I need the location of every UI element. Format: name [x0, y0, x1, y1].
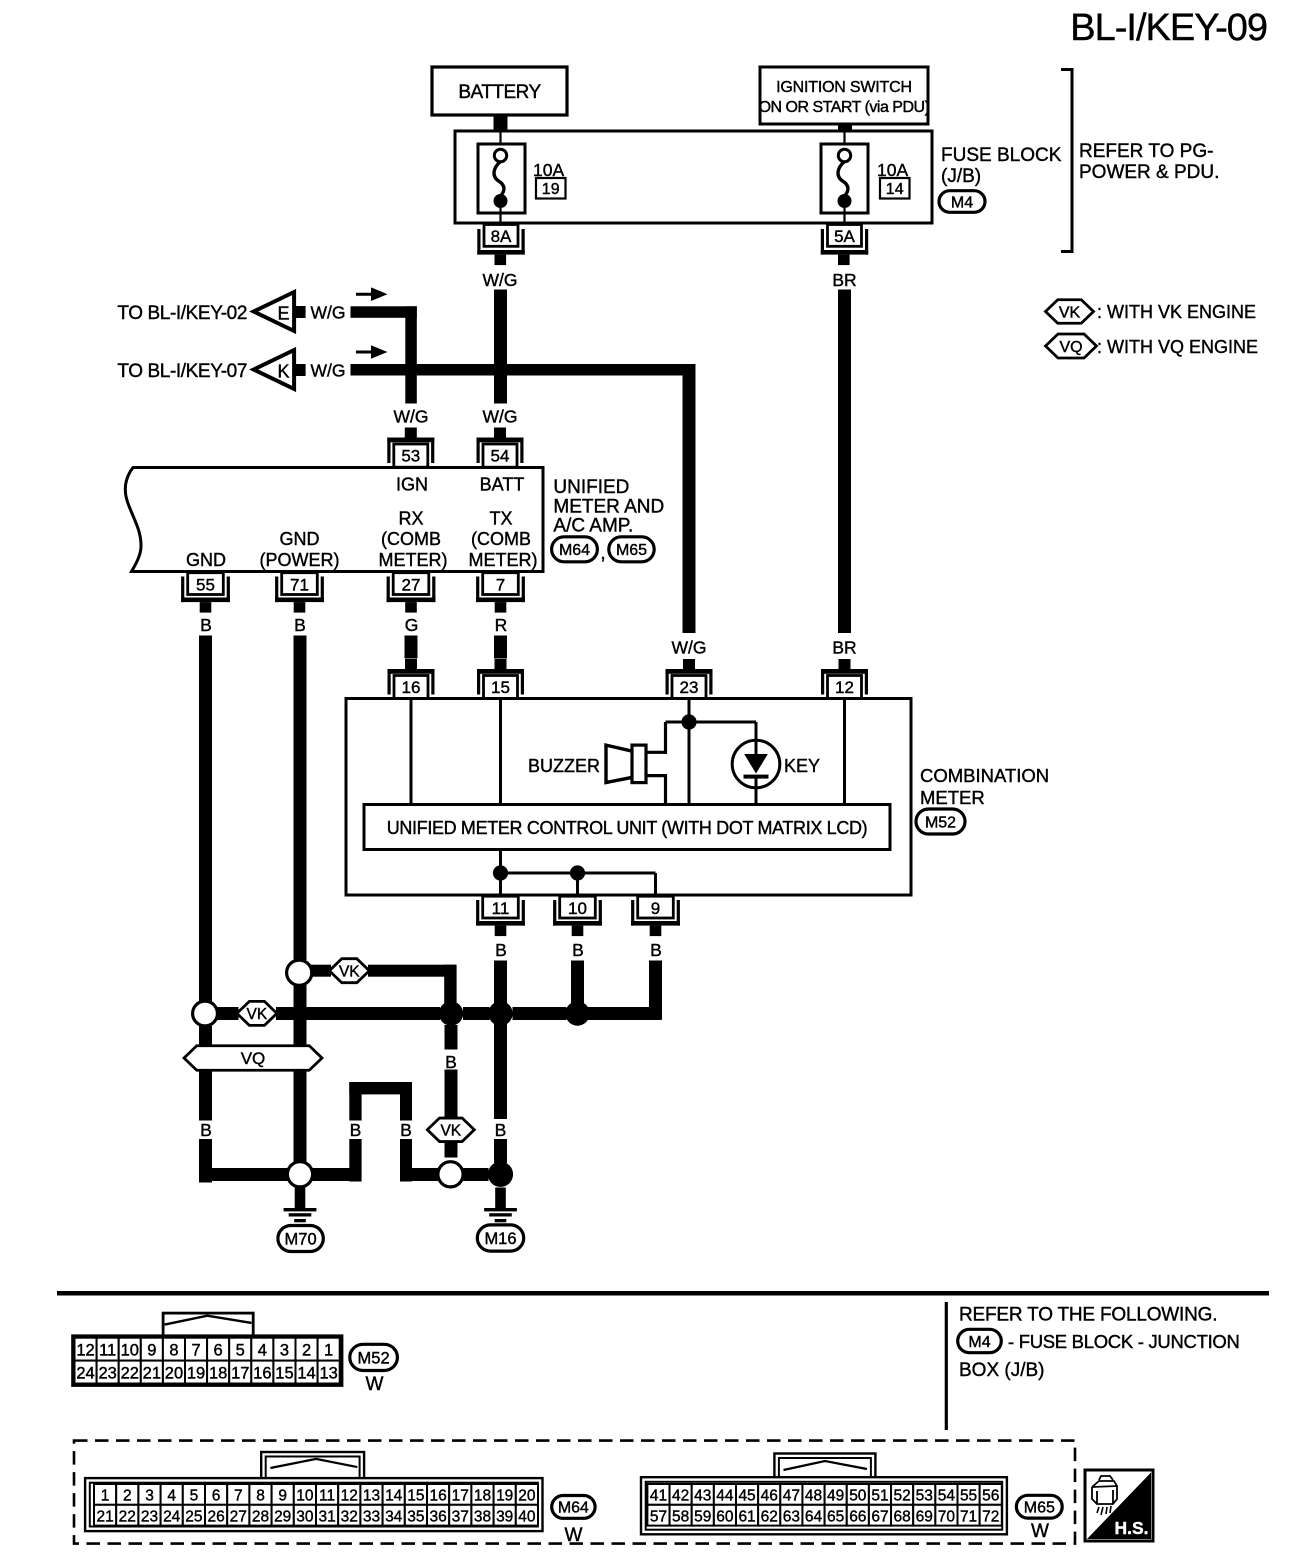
svg-text:UNIFIED METER CONTROL UNIT (WI: UNIFIED METER CONTROL UNIT (WITH DOT MAT…	[387, 818, 868, 838]
svg-text:ON OR START (via PDU): ON OR START (via PDU)	[759, 99, 930, 116]
connector pin 27	[387, 573, 436, 613]
svg-text:M65: M65	[616, 542, 647, 559]
svg-text:60: 60	[716, 1508, 734, 1525]
svg-text:METER): METER)	[469, 550, 538, 570]
svg-text:B: B	[200, 615, 212, 635]
svg-text:BOX (J/B): BOX (J/B)	[959, 1360, 1045, 1381]
fuse F14 number 14	[880, 178, 910, 199]
connector pin 15	[477, 659, 524, 699]
fuse F19 value 10A	[533, 160, 564, 180]
connector pin 5A	[821, 225, 868, 266]
svg-text:33: 33	[363, 1508, 380, 1525]
label KEY	[784, 756, 820, 776]
svg-text:BATT: BATT	[480, 474, 525, 494]
svg-text:38: 38	[474, 1508, 491, 1525]
svg-text:B: B	[350, 1120, 362, 1140]
junction node ground bus 1	[439, 1001, 463, 1025]
label BR ignition feed	[832, 270, 856, 290]
wire battery to fuse block	[494, 115, 508, 132]
svg-text:42: 42	[672, 1488, 689, 1505]
wire B pin 55 down	[199, 636, 289, 1183]
junction node pin23 branch	[681, 714, 696, 729]
label B row 11	[495, 1120, 507, 1140]
svg-text:72: 72	[982, 1508, 999, 1525]
pin label IGN	[396, 474, 428, 494]
svg-text:VQ: VQ	[241, 1049, 266, 1068]
svg-text:4: 4	[167, 1488, 176, 1505]
option tag VK lower	[427, 1118, 474, 1142]
svg-text:- FUSE BLOCK - JUNCTION: - FUSE BLOCK - JUNCTION	[1008, 1331, 1240, 1352]
svg-text:49: 49	[827, 1488, 844, 1505]
svg-text:BR: BR	[832, 270, 856, 290]
svg-text:19: 19	[187, 1365, 205, 1383]
connector ref M4	[939, 191, 985, 213]
svg-text:COMBINATION: COMBINATION	[920, 765, 1049, 786]
svg-text:3: 3	[145, 1488, 154, 1505]
connector ref M52	[916, 809, 965, 834]
svg-text:W: W	[366, 1374, 384, 1395]
svg-text:24: 24	[163, 1508, 181, 1525]
svg-text:1: 1	[324, 1342, 333, 1360]
svg-text:15: 15	[491, 678, 510, 697]
svg-text:15: 15	[275, 1365, 293, 1383]
svg-text:W: W	[1031, 1521, 1049, 1542]
pin label RX (COMB METER)	[379, 509, 448, 570]
svg-text:2: 2	[123, 1488, 132, 1505]
svg-text:K: K	[277, 362, 289, 382]
svg-text:12: 12	[76, 1342, 94, 1360]
svg-text:BL-I/KEY-09: BL-I/KEY-09	[1070, 7, 1267, 49]
svg-text:B: B	[295, 1120, 307, 1140]
svg-text:IGNITION SWITCH: IGNITION SWITCH	[776, 79, 912, 96]
svg-text:METER AND: METER AND	[553, 496, 664, 517]
svg-text:65: 65	[827, 1508, 844, 1525]
svg-text:26: 26	[207, 1508, 224, 1525]
junction node ground bus 2	[488, 1001, 512, 1025]
svg-text:(COMB: (COMB	[471, 529, 531, 549]
wire M16 link	[463, 1168, 489, 1181]
svg-text:27: 27	[230, 1508, 247, 1525]
wire umcu to pin 11	[499, 850, 502, 895]
svg-text:BR: BR	[832, 638, 856, 658]
LED key illumination	[732, 740, 780, 788]
svg-text:68: 68	[894, 1508, 911, 1525]
fuse F19 10A	[478, 131, 525, 225]
svg-text:69: 69	[916, 1508, 933, 1525]
svg-text:30: 30	[296, 1508, 314, 1525]
svg-text:M4: M4	[968, 1334, 990, 1351]
fuse block M4 box	[455, 131, 932, 223]
svg-text:44: 44	[716, 1488, 734, 1505]
svg-text:M70: M70	[285, 1230, 317, 1248]
svg-text:14: 14	[297, 1365, 315, 1383]
fuse F19 number 19	[536, 178, 566, 199]
wire G pin27 to pin16	[405, 636, 418, 659]
svg-text:64: 64	[805, 1508, 823, 1525]
svg-text:37: 37	[452, 1508, 469, 1525]
svg-text:B: B	[495, 940, 507, 960]
svg-text:KEY: KEY	[784, 756, 820, 776]
svg-text:(J/B): (J/B)	[941, 166, 981, 187]
direction arrow E row	[356, 287, 388, 301]
svg-text:39: 39	[496, 1508, 513, 1525]
svg-text:24: 24	[76, 1365, 94, 1383]
wire B pin 9 down	[584, 961, 663, 1021]
wire pin23 internal	[688, 700, 691, 805]
junction node pin11	[493, 865, 508, 880]
svg-text:67: 67	[871, 1508, 888, 1525]
svg-text:7: 7	[191, 1342, 200, 1360]
junction node ground bus 3	[565, 1001, 589, 1025]
svg-text:12: 12	[835, 678, 854, 697]
svg-text:(COMB: (COMB	[381, 529, 441, 549]
svg-text:VK: VK	[1059, 304, 1081, 321]
splice circle on wire 71 VK	[287, 960, 312, 985]
svg-text:31: 31	[318, 1508, 335, 1525]
H.S. logo box	[1085, 1470, 1153, 1541]
svg-text:TO BL-I/KEY-02: TO BL-I/KEY-02	[117, 303, 247, 324]
svg-text:M64: M64	[559, 542, 590, 559]
svg-text:IGN: IGN	[396, 474, 428, 494]
ground M70	[278, 1188, 323, 1252]
svg-text:52: 52	[894, 1488, 911, 1505]
connector face M64 color W	[565, 1525, 583, 1546]
fuse F14 value 10A	[877, 160, 908, 180]
separator line	[57, 1291, 1269, 1296]
svg-text:57: 57	[650, 1508, 667, 1525]
connector face M52 color W	[366, 1374, 384, 1395]
label UNIFIED METER AND A/C AMP.	[553, 477, 664, 536]
wire pin15 internal	[499, 700, 502, 805]
connector pin 7	[476, 573, 525, 613]
ignition switch	[759, 67, 930, 124]
splice circle on wire 55 VK	[193, 1001, 218, 1026]
svg-text:40: 40	[518, 1508, 536, 1525]
splice VK tag upper	[329, 959, 369, 983]
svg-text:16: 16	[253, 1365, 271, 1383]
svg-text:58: 58	[672, 1508, 689, 1525]
svg-text:23: 23	[98, 1365, 116, 1383]
svg-text:19: 19	[542, 181, 560, 198]
splice circle VK node	[438, 1162, 463, 1187]
connector pin 11	[476, 896, 525, 936]
wire ignition switch to fuse block	[838, 124, 852, 132]
svg-text:16: 16	[429, 1488, 446, 1505]
buzzer	[606, 745, 646, 783]
label W/G above pin 53	[394, 407, 429, 427]
dashed option box	[74, 1441, 1075, 1544]
fuse F14 10A	[821, 131, 868, 225]
legend symbol VQ	[1046, 334, 1097, 358]
pin label GND (POWER)	[260, 529, 340, 570]
connector face M64 tab	[261, 1452, 364, 1479]
svg-text:M65: M65	[1024, 1499, 1055, 1516]
svg-text:12: 12	[341, 1488, 358, 1505]
svg-text:A/C AMP.: A/C AMP.	[553, 515, 633, 536]
svg-text:23: 23	[141, 1508, 158, 1525]
label B row U-right	[400, 1120, 412, 1140]
connector pin 8A	[477, 225, 524, 266]
connector face M64	[85, 1478, 542, 1531]
svg-text:GND: GND	[186, 550, 226, 570]
svg-text:B: B	[294, 615, 306, 635]
svg-text:22: 22	[121, 1365, 139, 1383]
bracket refer note	[1061, 68, 1072, 253]
svg-text:71: 71	[960, 1508, 977, 1525]
wire BR vertical to pin 12	[838, 290, 851, 634]
svg-text:M4: M4	[951, 194, 973, 211]
svg-text:17: 17	[231, 1365, 249, 1383]
svg-text:53: 53	[401, 447, 420, 466]
label B row left	[200, 1120, 212, 1140]
wire ground bus	[217, 1007, 567, 1020]
label FUSE BLOCK (J/B)	[941, 145, 1062, 187]
label G wire 27	[405, 615, 419, 635]
connector pin 54	[477, 428, 524, 468]
wire B pin 71 down	[294, 636, 307, 1163]
svg-text:18: 18	[474, 1488, 491, 1505]
svg-text:M16: M16	[484, 1230, 516, 1248]
svg-text:B: B	[650, 940, 662, 960]
legend symbol VK	[1046, 300, 1094, 324]
svg-text:11: 11	[492, 899, 510, 918]
svg-text:27: 27	[402, 576, 421, 595]
svg-text:: WITH VQ ENGINE: : WITH VQ ENGINE	[1097, 337, 1258, 357]
svg-text:G: G	[405, 615, 419, 635]
svg-text:H.S.: H.S.	[1114, 1518, 1148, 1538]
svg-text:5A: 5A	[834, 227, 855, 246]
svg-text:6: 6	[214, 1342, 223, 1360]
pin label TX (COMB METER)	[469, 509, 538, 570]
svg-text:10: 10	[296, 1488, 314, 1505]
junction node pin10	[570, 865, 585, 880]
svg-text:TX: TX	[489, 509, 512, 529]
svg-text:10: 10	[568, 899, 587, 918]
label B wire 11	[495, 940, 507, 960]
connector ref M4 note	[958, 1329, 1002, 1352]
connector face M52 tab	[163, 1313, 253, 1337]
label B wire 71	[294, 615, 306, 635]
svg-text:FUSE BLOCK: FUSE BLOCK	[941, 145, 1062, 166]
svg-text:W/G: W/G	[311, 303, 346, 323]
svg-text:46: 46	[761, 1488, 778, 1505]
svg-text:7: 7	[234, 1488, 243, 1505]
svg-text:51: 51	[871, 1488, 888, 1505]
svg-text:VQ: VQ	[1059, 339, 1082, 356]
wire M70 link	[313, 1168, 358, 1181]
wire VK branch down	[445, 1025, 458, 1158]
off-page arrow E to BL-I/KEY-02	[117, 292, 305, 331]
svg-text:50: 50	[849, 1488, 867, 1505]
svg-text:14: 14	[886, 181, 904, 198]
wire split to pins 10 9	[501, 873, 656, 894]
svg-text:59: 59	[694, 1508, 711, 1525]
svg-text:E: E	[277, 304, 289, 324]
svg-text:M52: M52	[358, 1349, 390, 1367]
svg-text:18: 18	[209, 1365, 227, 1383]
note REFER TO PG-POWER & PDU.	[1079, 141, 1219, 183]
svg-text:VK: VK	[247, 1006, 268, 1023]
svg-text:6: 6	[212, 1488, 221, 1505]
note FUSE BLOCK JUNCTION	[959, 1331, 1240, 1381]
svg-text:71: 71	[290, 576, 309, 595]
svg-text:VK: VK	[339, 963, 360, 980]
wire R pin7 to pin15	[494, 636, 507, 659]
svg-text:TO BL-I/KEY-07: TO BL-I/KEY-07	[117, 361, 247, 382]
svg-text:W/G: W/G	[483, 270, 518, 290]
svg-text:43: 43	[694, 1488, 711, 1505]
svg-text:(POWER): (POWER)	[260, 550, 340, 570]
svg-text:8A: 8A	[491, 227, 512, 246]
svg-text:53: 53	[916, 1488, 933, 1505]
svg-text:W: W	[565, 1525, 583, 1546]
svg-text:7: 7	[496, 576, 505, 595]
wire W/G vertical to pin 54	[494, 290, 507, 404]
wire inverted-U jog	[349, 1082, 438, 1182]
label B wire 9	[650, 940, 662, 960]
svg-text:20: 20	[518, 1488, 536, 1505]
svg-text:UNIFIED: UNIFIED	[553, 477, 629, 498]
label COMBINATION METER	[920, 765, 1049, 808]
svg-text:20: 20	[165, 1365, 183, 1383]
svg-text:W/G: W/G	[311, 361, 346, 381]
svg-text:R: R	[495, 615, 508, 635]
svg-text:,: ,	[600, 543, 605, 564]
svg-text:9: 9	[278, 1488, 287, 1505]
connector ref M64 M65	[552, 537, 655, 564]
junction node M16	[488, 1162, 513, 1187]
svg-text:5: 5	[236, 1342, 245, 1360]
svg-text:22: 22	[119, 1508, 136, 1525]
label BUZZER	[528, 756, 600, 776]
svg-text:4: 4	[258, 1342, 267, 1360]
svg-text:32: 32	[341, 1508, 358, 1525]
svg-text:48: 48	[805, 1488, 822, 1505]
svg-text:2: 2	[302, 1342, 311, 1360]
connector pin 53	[387, 428, 434, 468]
splice circle M70 node	[287, 1162, 312, 1187]
svg-text:34: 34	[385, 1508, 403, 1525]
unified meter and A/C amp box U1	[125, 468, 543, 572]
title BL-I/KEY-09	[1070, 7, 1267, 49]
wire W/G from K to pin 23	[351, 364, 696, 633]
off-page arrow K to BL-I/KEY-07	[117, 350, 305, 389]
svg-text:11: 11	[319, 1488, 335, 1505]
wire VK branch upper	[311, 965, 457, 1014]
svg-text:14: 14	[385, 1488, 403, 1505]
svg-text:B: B	[200, 1120, 212, 1140]
svg-text:47: 47	[783, 1488, 800, 1505]
svg-text:56: 56	[982, 1488, 999, 1505]
svg-text:M64: M64	[558, 1500, 589, 1517]
svg-text:B: B	[400, 1120, 412, 1140]
connector face M65	[641, 1477, 1007, 1534]
svg-text:METER: METER	[920, 787, 985, 808]
svg-text:8: 8	[169, 1342, 178, 1360]
svg-text:8: 8	[256, 1488, 265, 1505]
svg-text:B: B	[445, 1052, 457, 1072]
svg-text:W/G: W/G	[672, 638, 707, 658]
svg-text:11: 11	[99, 1342, 116, 1360]
svg-text:W/G: W/G	[394, 407, 429, 427]
svg-text:63: 63	[783, 1508, 800, 1525]
svg-text:45: 45	[738, 1488, 755, 1505]
label B wire VK branch	[445, 1052, 457, 1072]
svg-text:70: 70	[938, 1508, 956, 1525]
svg-text:41: 41	[650, 1488, 667, 1505]
connector pin 16	[388, 659, 435, 699]
connector pin 55	[181, 573, 230, 613]
connector face ref M64	[552, 1496, 595, 1519]
svg-text:25: 25	[185, 1508, 202, 1525]
connector pin 71	[275, 573, 324, 613]
ground M16	[477, 1188, 523, 1252]
svg-text:15: 15	[407, 1488, 424, 1505]
label W/G at arrow E	[311, 303, 346, 323]
svg-text:17: 17	[452, 1488, 469, 1505]
svg-text:21: 21	[96, 1508, 113, 1525]
svg-text:62: 62	[761, 1508, 778, 1525]
svg-text:54: 54	[491, 447, 510, 466]
svg-text:RX: RX	[398, 509, 423, 529]
label BR above pin 12	[832, 638, 856, 658]
svg-text:9: 9	[147, 1342, 156, 1360]
svg-text:54: 54	[938, 1488, 956, 1505]
svg-text:B: B	[495, 1120, 507, 1140]
connector face ref M52	[350, 1344, 398, 1370]
connector face M52	[73, 1336, 342, 1385]
connector face M65 tab	[774, 1454, 875, 1482]
option tag VQ	[184, 1046, 322, 1071]
svg-text:1: 1	[101, 1488, 110, 1505]
svg-text:16: 16	[402, 678, 421, 697]
label B row 71	[295, 1120, 307, 1140]
wire W/G from E	[351, 306, 417, 403]
label B wire 10	[572, 940, 584, 960]
wire B pin 11 down	[494, 961, 507, 1164]
label W/G battery feed	[483, 270, 518, 290]
label W/G at arrow K	[311, 361, 346, 381]
note REFER TO THE FOLLOWING	[959, 1305, 1217, 1326]
svg-text:13: 13	[319, 1365, 337, 1383]
pin label GND	[186, 550, 226, 570]
svg-text:M52: M52	[925, 814, 956, 831]
label R wire 7	[495, 615, 508, 635]
svg-text:: WITH VK ENGINE: : WITH VK ENGINE	[1097, 302, 1256, 322]
svg-text:28: 28	[252, 1508, 269, 1525]
svg-text:10: 10	[121, 1342, 139, 1360]
svg-text:BATTERY: BATTERY	[458, 82, 541, 103]
pin label BATT	[480, 474, 525, 494]
wire B pin 10 down	[571, 961, 584, 1014]
svg-text:21: 21	[143, 1365, 161, 1383]
svg-text:35: 35	[407, 1508, 424, 1525]
svg-text:3: 3	[280, 1342, 289, 1360]
connector pin 9	[631, 896, 680, 936]
connector pin 23	[666, 659, 713, 699]
legend text VQ	[1097, 337, 1258, 357]
wire pin12 internal	[843, 700, 846, 805]
svg-text:VK: VK	[440, 1122, 461, 1139]
label W/G above pin 23	[672, 638, 707, 658]
svg-text:55: 55	[196, 576, 215, 595]
svg-text:W/G: W/G	[483, 407, 518, 427]
label W/G above pin 54	[483, 407, 518, 427]
svg-text:9: 9	[651, 899, 660, 918]
svg-text:REFER TO THE FOLLOWING.: REFER TO THE FOLLOWING.	[959, 1305, 1217, 1326]
unified meter control unit box	[364, 805, 890, 850]
svg-text:29: 29	[274, 1508, 291, 1525]
